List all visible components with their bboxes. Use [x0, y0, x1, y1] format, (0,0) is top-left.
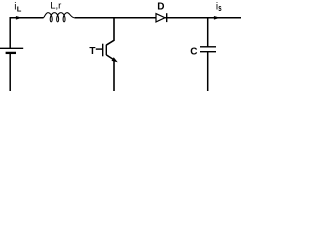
svg-text:L: L	[17, 4, 22, 13]
wire top rail left segment	[10, 17, 44, 19]
svg-text:s: s	[218, 3, 221, 13]
wire left vertical (source top lead)	[9, 17, 11, 48]
transistor T gate bar	[102, 44, 104, 57]
wire left vertical (source bottom lead)	[9, 53, 11, 91]
wire capacitor bottom lead	[207, 52, 209, 91]
transistor T gate lead	[96, 48, 103, 50]
battery source positive plate	[0, 47, 23, 49]
capacitor C bottom plate	[200, 51, 216, 53]
arrow is current	[214, 16, 220, 20]
wire top rail right segment	[165, 17, 241, 19]
arrow iL current	[16, 16, 22, 20]
svg-text:L,r: L,r	[50, 1, 61, 12]
transistor T body bar	[105, 45, 107, 55]
diode D cathode bar	[166, 13, 168, 22]
wire transistor emitter to bottom	[113, 59, 115, 91]
wire top rail middle segment	[75, 17, 157, 19]
transistor T collector lead	[106, 18, 114, 45]
diode D triangle	[156, 14, 165, 22]
inductor L,r	[43, 13, 75, 22]
wire capacitor top lead	[207, 18, 209, 47]
svg-text:C: C	[190, 47, 197, 58]
transistor T emitter lead	[106, 55, 114, 60]
capacitor C top plate	[200, 46, 216, 48]
battery source negative plate	[6, 52, 16, 54]
transistor T emitter arrow	[112, 57, 118, 62]
svg-text:D: D	[157, 1, 164, 12]
svg-text:T: T	[89, 46, 95, 57]
